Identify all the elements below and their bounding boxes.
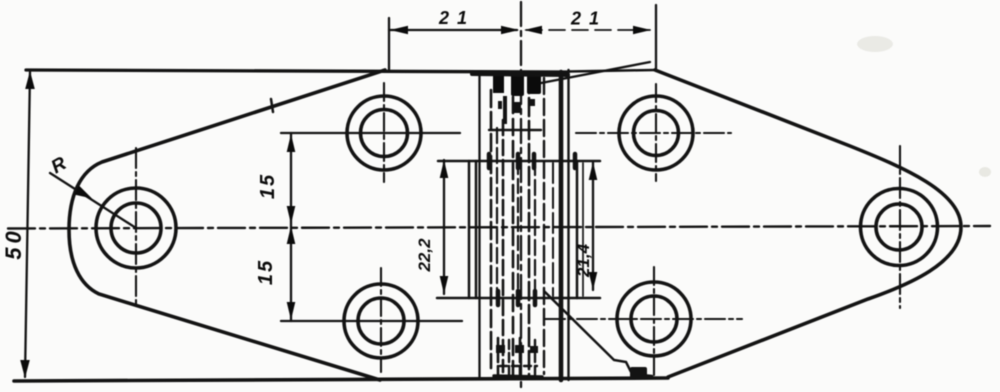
svg-text:15: 15 (257, 173, 279, 199)
svg-text:21,4: 21,4 (574, 243, 593, 278)
svg-text:22,2: 22,2 (415, 238, 434, 273)
svg-text:50: 50 (1, 227, 26, 259)
svg-text:15: 15 (255, 259, 277, 285)
svg-text:21: 21 (570, 9, 607, 29)
svg-text:21: 21 (438, 8, 475, 28)
